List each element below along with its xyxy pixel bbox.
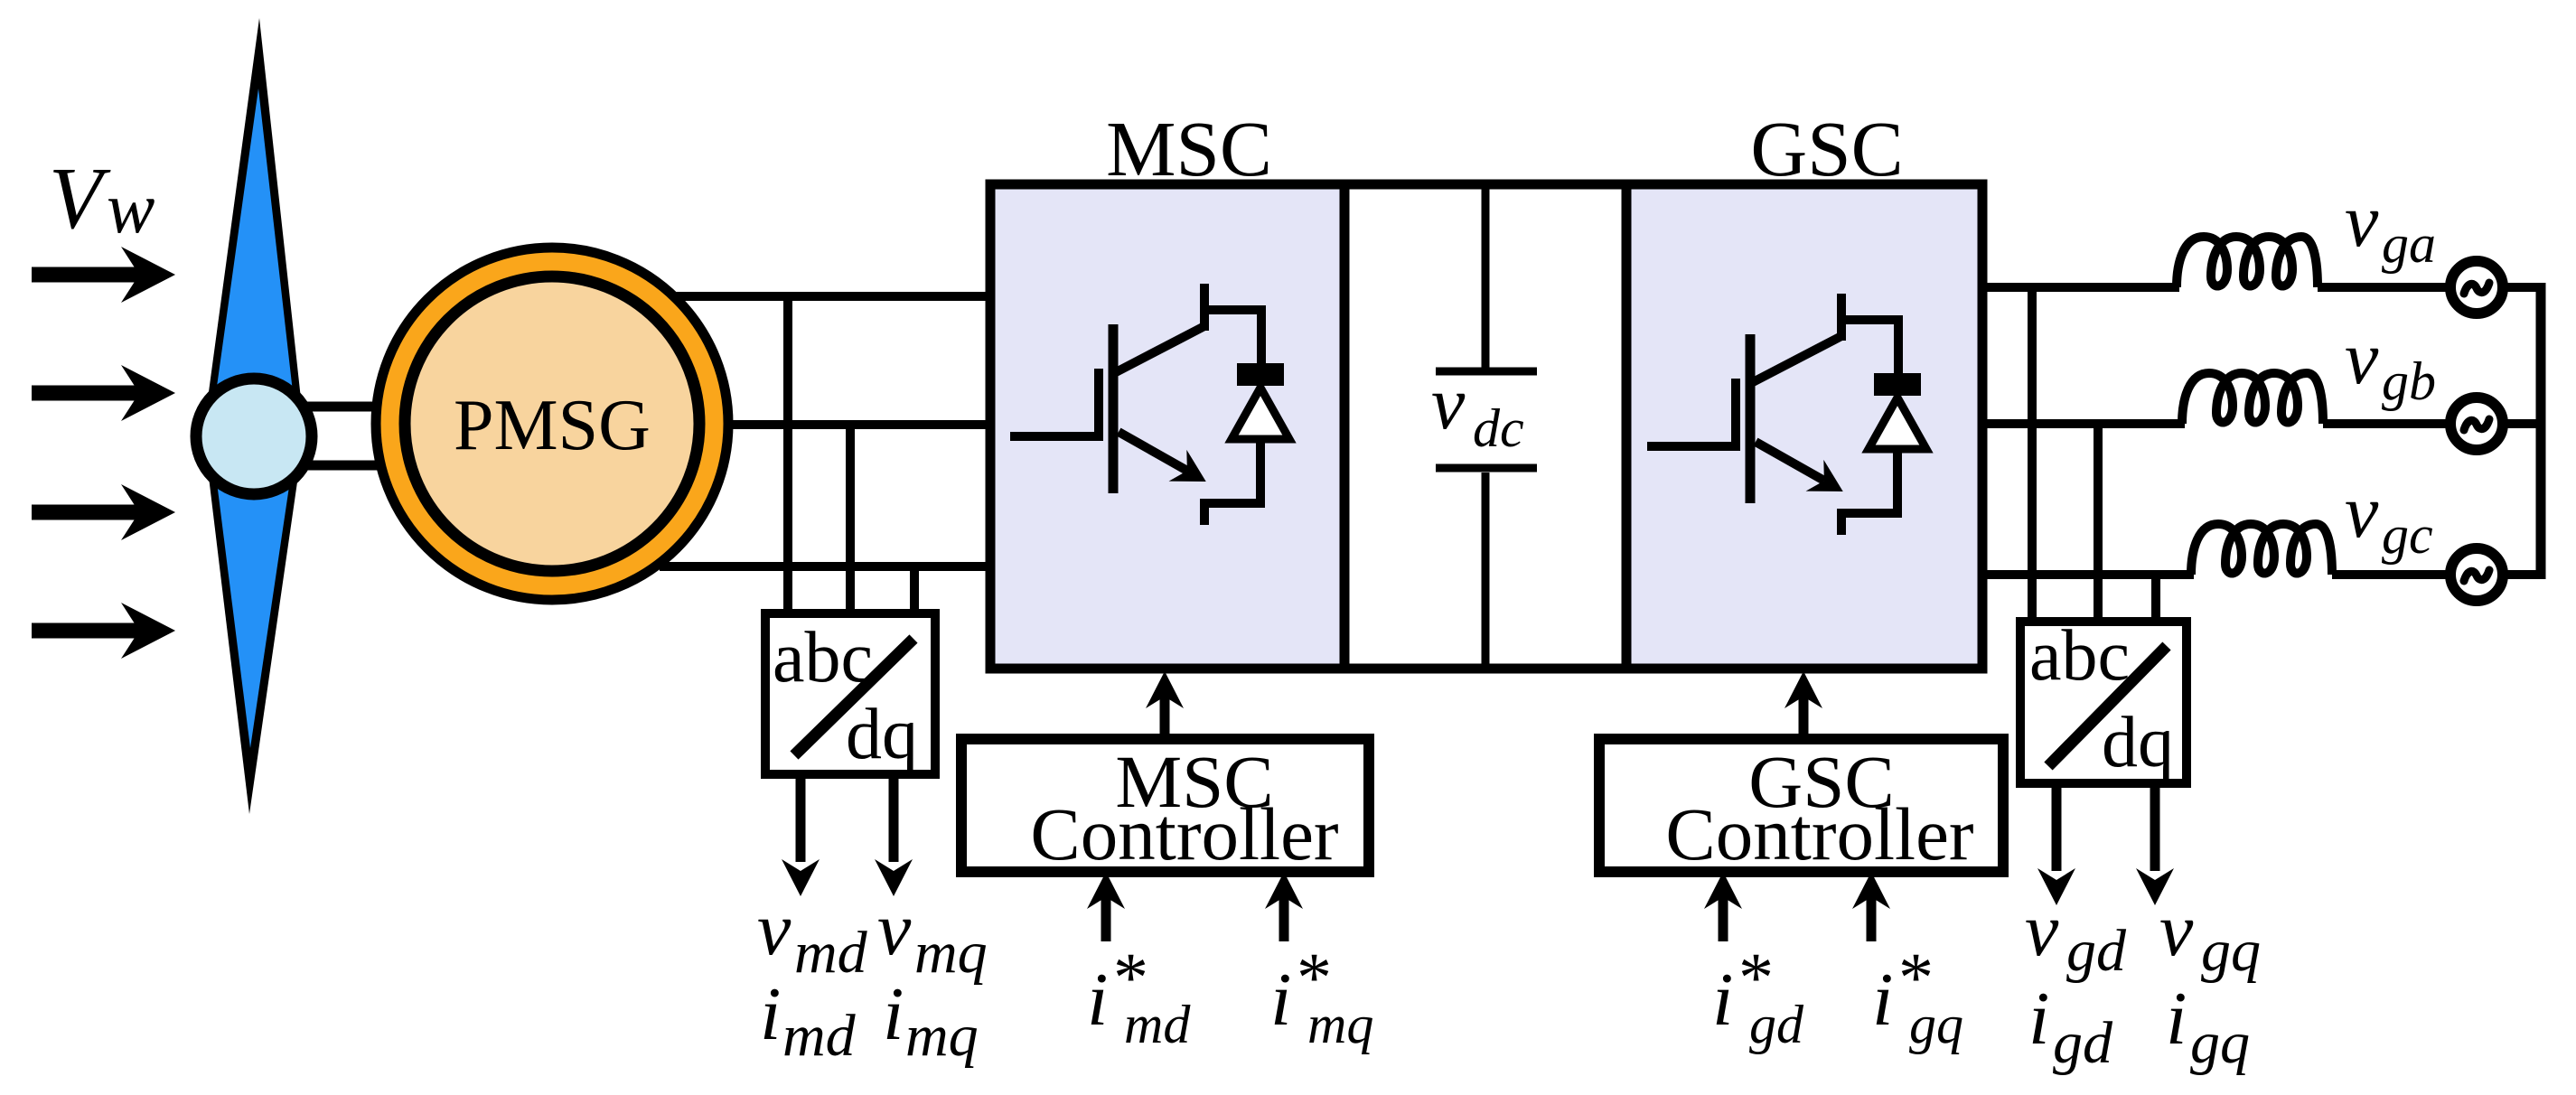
label i*_md: [1087, 938, 1191, 1054]
svg-text:v: v: [1431, 361, 1466, 445]
svg-text:gd: gd: [2066, 918, 2127, 984]
svg-text:V: V: [49, 150, 111, 247]
label i*_gd: [1712, 938, 1804, 1054]
svg-text:gq: gq: [2190, 1010, 2250, 1076]
svg-text:md: md: [1124, 995, 1191, 1054]
generator PMSG: [376, 248, 728, 600]
wire phase b left: [723, 420, 990, 429]
label i_gq: [2166, 977, 2250, 1076]
label v_ga: [2345, 179, 2436, 274]
source Vga circle: [2450, 261, 2503, 314]
block abc/dq right: [2020, 616, 2187, 783]
svg-text:i: i: [1712, 958, 1733, 1042]
wire phase c right: [1982, 570, 2194, 579]
svg-text:gc: gc: [2382, 505, 2433, 565]
wire phase c left: [660, 562, 990, 571]
converter GSC box: [1626, 184, 1982, 669]
wire L3 to source c: [2332, 570, 2450, 579]
arrow i*gq in: [1852, 872, 1890, 941]
svg-text:dq: dq: [2102, 703, 2174, 782]
wire tap a right: [2028, 287, 2037, 622]
wire source a to bus: [2503, 283, 2545, 292]
label i_md: [760, 972, 857, 1069]
svg-text:md: md: [782, 1003, 857, 1069]
label v_gc: [2345, 470, 2433, 565]
source Vgb circle: [2450, 398, 2503, 450]
arrow i*gd in: [1704, 872, 1742, 941]
wind arrow 1: [32, 247, 175, 303]
shaft wires hub to PMSG: [305, 407, 389, 465]
label v_gd: [2025, 888, 2127, 984]
svg-text:ga: ga: [2382, 214, 2436, 274]
wire phase a right: [1982, 283, 2179, 292]
wire tap b right: [2094, 424, 2103, 622]
svg-text:v: v: [2159, 888, 2194, 972]
svg-text:w: w: [107, 169, 155, 248]
svg-text:abc: abc: [2029, 616, 2130, 696]
wire source b to bus: [2503, 419, 2545, 428]
label i*_gq: [1872, 938, 1963, 1054]
svg-text:mq: mq: [914, 920, 988, 986]
svg-text:MSC: MSC: [1106, 105, 1272, 192]
arrow vmq out: [875, 779, 913, 896]
svg-text:i: i: [883, 972, 904, 1056]
wire tap b to abc/dq: [846, 425, 855, 613]
wire tap c right: [2151, 575, 2160, 622]
label v_gb: [2345, 316, 2436, 411]
block MSC controller: [961, 739, 1369, 875]
svg-text:i: i: [2166, 977, 2187, 1061]
label v_gq: [2159, 888, 2261, 984]
wire L2 to source b: [2323, 419, 2450, 428]
inductor L2: [2182, 373, 2323, 424]
diode D2 in GSC: [1869, 315, 1926, 518]
label Vw wind speed: [49, 150, 155, 248]
svg-text:i: i: [1872, 958, 1893, 1042]
svg-text:i: i: [1270, 958, 1291, 1042]
svg-text:gq: gq: [2201, 918, 2261, 984]
wire tap a to abc/dq: [783, 296, 792, 613]
diode D1 in MSC: [1232, 305, 1289, 508]
arrow i*md in: [1087, 872, 1125, 941]
wind arrow 3: [32, 484, 175, 540]
svg-text:v: v: [2345, 179, 2379, 263]
wire L1 to source a: [2318, 283, 2450, 292]
svg-text:gq: gq: [1909, 995, 1963, 1054]
label v_dc: [1431, 361, 1524, 458]
wire DC top rail: [1344, 180, 1626, 190]
svg-text:mq: mq: [905, 1003, 979, 1069]
arrow MSC controller to MSC: [1146, 671, 1184, 739]
svg-text:gd: gd: [1749, 995, 1804, 1054]
arrow i*mq in: [1265, 872, 1303, 941]
inductor L3: [2191, 524, 2332, 575]
label i_mq: [883, 972, 979, 1069]
svg-text:i: i: [1087, 958, 1108, 1042]
wire phase a left: [664, 292, 990, 301]
svg-text:PMSG: PMSG: [454, 386, 651, 465]
svg-text:v: v: [877, 887, 912, 971]
hub: [196, 379, 312, 494]
wire phase b right: [1982, 419, 2185, 428]
svg-text:gb: gb: [2382, 351, 2436, 411]
wire grid bus vertical: [2536, 283, 2546, 579]
svg-text:GSC: GSC: [1750, 105, 1903, 192]
svg-text:v: v: [757, 887, 792, 971]
svg-text:i: i: [760, 972, 781, 1056]
svg-text:gd: gd: [2053, 1010, 2113, 1076]
label i*_mq: [1270, 938, 1373, 1054]
wire source c to bus: [2503, 570, 2545, 579]
svg-text:v: v: [2345, 316, 2379, 400]
svg-text:v: v: [2025, 888, 2059, 972]
block GSC controller: [1599, 739, 2003, 875]
svg-text:dq: dq: [846, 695, 918, 774]
block abc/dq left: [765, 613, 935, 774]
wind arrow 4: [32, 603, 175, 659]
arrow vgq out: [2136, 788, 2174, 905]
arrow vgd out: [2037, 788, 2075, 905]
svg-text:v: v: [2345, 470, 2379, 554]
source Vgc circle: [2450, 548, 2503, 601]
arrow GSC controller to GSC: [1784, 671, 1822, 739]
svg-text:mq: mq: [1307, 995, 1373, 1054]
transistor Q2 IGBT in GSC: [1647, 294, 1926, 535]
wind arrow 2: [32, 365, 175, 421]
transistor Q1 IGBT in MSC: [1010, 284, 1265, 525]
svg-text:i: i: [2028, 977, 2049, 1061]
capacitor C1 dc-link: [1436, 189, 1537, 664]
wire tap c to abc/dq: [910, 566, 919, 613]
svg-text:Controller: Controller: [1665, 792, 1973, 875]
wire DC bottom rail: [1344, 664, 1626, 674]
svg-text:Controller: Controller: [1030, 792, 1338, 875]
label i_gd: [2028, 977, 2113, 1076]
label v_md: [757, 887, 868, 986]
inductor L1: [2177, 237, 2318, 287]
svg-text:md: md: [794, 920, 868, 986]
turbine blade: [203, 18, 304, 814]
label v_mq: [877, 887, 988, 986]
svg-text:dc: dc: [1473, 398, 1524, 458]
converter MSC box: [990, 184, 1344, 669]
arrow vmd out: [782, 779, 820, 896]
